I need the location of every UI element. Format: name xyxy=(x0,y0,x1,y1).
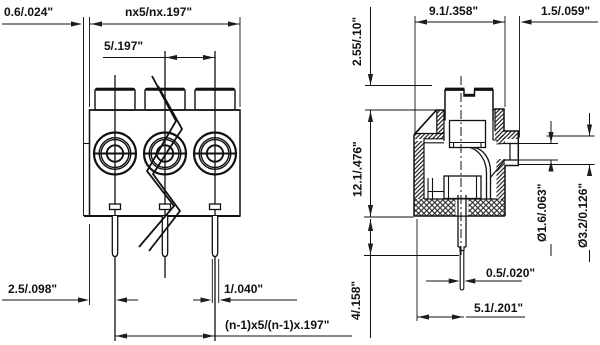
svg-text:5.1/.201": 5.1/.201" xyxy=(474,301,523,315)
svg-text:nx5/nx.197": nx5/nx.197" xyxy=(125,5,192,19)
svg-text:Ø1.6/.063": Ø1.6/.063" xyxy=(535,184,549,242)
svg-text:9.1/.358": 9.1/.358" xyxy=(429,4,478,18)
svg-text:0.6/.024": 0.6/.024" xyxy=(4,5,53,19)
svg-text:Ø3.2/0.126": Ø3.2/0.126" xyxy=(576,183,590,248)
svg-text:1.5/.059": 1.5/.059" xyxy=(541,4,590,18)
svg-text:0.5/.020": 0.5/.020" xyxy=(486,266,535,280)
svg-text:1/.040": 1/.040" xyxy=(224,282,263,296)
svg-text:12.1/.476": 12.1/.476" xyxy=(351,141,365,197)
svg-text:5/.197": 5/.197" xyxy=(104,39,143,53)
svg-text:2.55/.10": 2.55/.10" xyxy=(350,17,364,66)
svg-text:(n-1)x5/(n-1)x.197": (n-1)x5/(n-1)x.197" xyxy=(225,318,329,332)
svg-text:4/.158": 4/.158" xyxy=(349,281,363,320)
svg-text:2.5/.098": 2.5/.098" xyxy=(8,282,57,296)
